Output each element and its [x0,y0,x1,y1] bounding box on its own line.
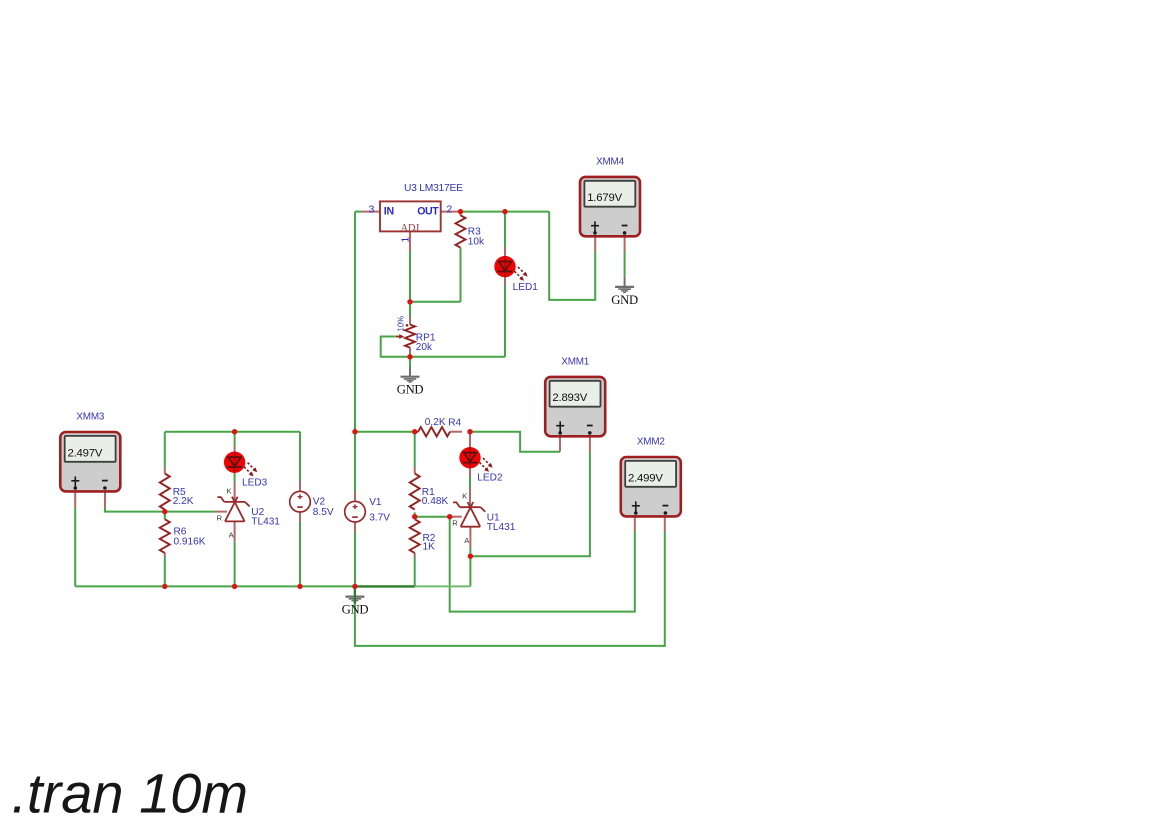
wire [415,431,419,433]
wire [105,507,215,512]
wire [460,212,462,216]
wire [234,432,236,446]
wire [664,516,666,531]
wire [414,512,416,516]
junction node [502,209,507,214]
junction node [297,584,302,589]
wire [594,236,596,251]
resistor R5 [160,474,194,510]
junction node [232,429,237,434]
wire [74,507,76,586]
wire [469,556,471,586]
wire [469,432,471,434]
junction node [468,554,473,559]
junction node [162,584,167,589]
junction node [352,429,357,434]
svg-text:K: K [227,486,232,495]
shunt regulator U1 TL431 [452,492,516,545]
wire [355,531,665,646]
wire [354,532,356,587]
svg-text:V1: V1 [369,497,382,508]
wire [299,481,301,492]
wire [450,431,462,433]
wire [559,436,561,451]
wire [409,231,411,251]
wire [234,482,236,502]
svg-text:0.2K: 0.2K [425,417,446,428]
wire [354,212,356,432]
svg-text:R: R [217,513,223,522]
wire [104,491,106,507]
wire [460,248,462,302]
wire [381,337,410,357]
svg-text:U3 LM317EE: U3 LM317EE [404,183,463,194]
wire [469,487,471,507]
wire [410,356,505,358]
wire [409,357,411,367]
svg-text:0.916K: 0.916K [174,537,206,548]
wire [589,436,591,452]
junction node [352,584,357,589]
svg-text:GND: GND [611,293,638,307]
svg-text:GND: GND [397,383,424,397]
voltage source V1 3.7V [345,497,391,524]
svg-text:3.7V: 3.7V [369,513,390,524]
svg-text:.tran 10m: .tran 10m [12,761,249,824]
junction node [162,509,167,514]
svg-text:IN: IN [384,205,394,217]
svg-text:TL431: TL431 [251,517,280,528]
svg-text:1K: 1K [423,542,436,553]
svg-text:1: 1 [400,237,412,243]
svg-text:20k: 20k [416,342,433,353]
wire [470,452,590,557]
svg-text:2.893V: 2.893V [552,392,587,404]
junction node [232,584,237,589]
wire [450,517,635,612]
wire [461,211,550,213]
wire [75,585,355,587]
svg-text:3: 3 [369,203,375,215]
wire [441,211,461,213]
resistor R1 [410,474,449,510]
LED LED1 [494,256,538,293]
junction node [412,514,417,519]
wire [355,431,415,433]
wire [165,431,300,433]
ground [342,586,369,616]
voltage source V2 8.5V [290,491,334,517]
svg-text:LED2: LED2 [477,473,503,484]
wire [164,512,166,520]
regulator U3 LM317EE [369,183,464,243]
wire [234,541,236,586]
wire [74,491,76,507]
multimeter XMM2 [621,436,681,516]
wire [504,247,506,257]
svg-text:LED1: LED1 [513,282,539,293]
multimeter XMM1 [545,356,605,436]
junction node [412,429,417,434]
svg-text:1.679V: 1.679V [587,192,622,204]
wire [354,492,356,502]
wire [355,585,415,587]
svg-text:OUT: OUT [417,205,439,217]
resistor R4 [418,417,461,437]
wire [469,468,471,476]
wire [634,516,636,531]
ground [397,367,424,397]
wire [215,511,227,513]
wire [504,277,506,286]
LED LED3 [224,452,268,489]
wire [234,446,236,452]
svg-text:K: K [462,492,467,501]
LED LED2 [459,447,503,484]
shunt regulator U2 TL431 [217,486,281,539]
svg-text:R4: R4 [448,417,461,428]
wire [414,553,416,557]
wire [299,512,301,522]
junction node [407,299,412,304]
multimeter XMM3 [60,411,120,491]
wire [415,585,471,587]
resistor R3 [456,215,486,247]
wire [299,432,301,482]
svg-text:XMM4: XMM4 [596,156,624,167]
svg-text:R: R [452,519,458,528]
svg-text:LED3: LED3 [242,477,268,488]
wire [414,556,416,586]
wire [414,432,416,468]
wire [409,317,411,325]
svg-text:10k: 10k [468,236,485,247]
wire [164,432,166,468]
wire [469,547,471,557]
svg-text:2: 2 [446,203,452,215]
wire [299,522,301,587]
wire [354,522,356,532]
wire [469,527,471,547]
wire [362,211,381,213]
wire [410,301,461,303]
svg-text:2.499V: 2.499V [628,472,663,484]
wire [414,467,416,474]
wire [624,236,626,251]
wire [409,251,411,317]
svg-text:2.2K: 2.2K [173,496,194,507]
svg-text:2.497V: 2.497V [68,447,103,459]
wire [234,521,236,541]
multimeter XMM4 [580,156,640,236]
resistor R2 [410,519,436,553]
wire [409,348,411,357]
resistor R6 [160,519,206,553]
wire [234,468,236,473]
wire [504,212,506,247]
wire [549,212,595,300]
wire [450,516,462,518]
svg-text:XMM1: XMM1 [561,356,589,367]
junction node [458,209,463,214]
junction node [407,354,412,359]
potentiometer RP1 [396,316,436,353]
wire [355,211,362,213]
svg-text:0.48K: 0.48K [422,496,449,507]
ground [611,277,638,307]
wire [164,556,166,586]
wire [415,516,450,518]
wire [164,467,166,474]
wire [164,553,166,557]
wire [624,251,626,277]
wire [469,434,471,448]
svg-text:XMM3: XMM3 [76,411,104,422]
svg-text:8.5V: 8.5V [313,507,334,518]
svg-text:GND: GND [342,603,369,617]
wire [354,432,356,492]
wire [234,473,236,482]
wire [470,432,560,452]
junction node [467,429,472,434]
svg-text:10%: 10% [397,316,406,332]
wire [469,476,471,488]
junction node [447,514,452,519]
svg-text:XMM2: XMM2 [637,436,665,447]
wire [164,512,166,516]
svg-text:TL431: TL431 [487,522,516,533]
svg-text:ADJ: ADJ [401,223,420,234]
wire [504,286,506,357]
